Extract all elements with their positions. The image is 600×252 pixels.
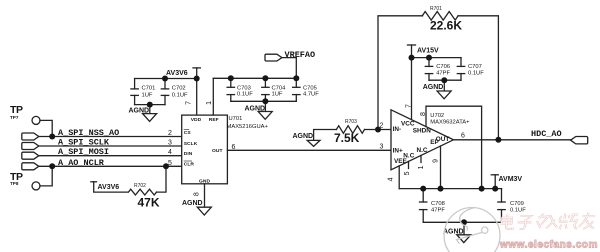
svg-text:HDC_AO: HDC_AO	[531, 129, 562, 139]
watermark chinese characters	[501, 213, 596, 230]
capacitor C702	[161, 79, 168, 105]
node AGND on C701 rail	[147, 102, 153, 108]
char you	[578, 213, 595, 229]
op-amp U702 triangle	[391, 110, 454, 170]
wire C708 C709 ground rail	[423, 221, 501, 223]
char dian	[501, 215, 514, 230]
svg-text:AVM3V: AVM3V	[499, 176, 523, 183]
svg-text:C706: C706	[436, 64, 450, 70]
svg-text:C709: C709	[510, 201, 524, 207]
ground AGND below C706/C707	[437, 80, 451, 99]
connector arrow A_SPI_NSS_AO	[22, 133, 39, 140]
svg-text:4.7UF: 4.7UF	[303, 92, 319, 98]
svg-text:IN+: IN+	[393, 148, 403, 155]
capacitor C705	[293, 78, 300, 101]
svg-text:AV3V6: AV3V6	[166, 70, 188, 77]
capacitor C709	[498, 189, 505, 223]
wire U701 OUT to opamp IN+	[227, 149, 391, 151]
node AGND on C706 rail	[441, 77, 447, 83]
svg-text:IN-: IN-	[393, 126, 402, 133]
ground AGND below C703-C705	[258, 101, 272, 119]
svg-text:3: 3	[168, 140, 172, 147]
svg-text:1: 1	[206, 101, 213, 105]
wire A_SPI_SCLK	[39, 145, 182, 147]
wire NC pin5 stub	[408, 161, 410, 168]
svg-text:5: 5	[404, 171, 411, 175]
wire VCC pin7 stub	[411, 58, 413, 120]
svg-text:R701: R701	[430, 6, 442, 12]
svg-text:VREFAO: VREFAO	[285, 50, 316, 60]
svg-text:C705: C705	[303, 85, 317, 91]
power symbol AV3V6 (U701 VDD rail)	[193, 67, 200, 69]
resistor R701 22.6K	[422, 12, 458, 21]
connector arrow A_SPI_MOSI	[22, 152, 39, 159]
svg-text:www.elecfans.com: www.elecfans.com	[499, 240, 598, 251]
svg-text:AGND: AGND	[182, 200, 203, 207]
connector arrow VREFAO	[265, 54, 282, 61]
svg-text:R703: R703	[345, 119, 357, 125]
wire AV15V rail	[412, 57, 462, 59]
ground AGND below C701/C702	[143, 105, 157, 122]
char dian	[501, 215, 514, 230]
ground AGND below U701	[197, 207, 211, 215]
svg-text:R702: R702	[134, 183, 146, 189]
char zi	[517, 216, 532, 229]
char shao	[558, 214, 579, 230]
node C705/VREFAO on REF rail	[293, 75, 299, 81]
wire REF rail	[213, 77, 296, 79]
wire A_SPI_NSS_AO	[39, 136, 182, 138]
svg-text:AGND: AGND	[293, 133, 314, 140]
resistor R702 47K	[128, 189, 156, 195]
svg-text:AGND: AGND	[129, 108, 150, 115]
svg-text:C707: C707	[468, 64, 482, 70]
node AGND on C703 rail	[262, 98, 268, 104]
svg-text:22.6K: 22.6K	[430, 19, 462, 33]
svg-text:AGND: AGND	[443, 229, 464, 236]
svg-text:A_SPI_MOSI: A_SPI_MOSI	[58, 147, 109, 157]
power symbol AV15V	[408, 44, 416, 46]
ground AGND below C708/C709	[457, 222, 471, 242]
connector arrow A_SPI_SCLK	[22, 143, 39, 150]
svg-text:0.1UF: 0.1UF	[510, 208, 526, 214]
svg-text:5: 5	[168, 160, 172, 167]
node C702 on AV3V6 rail	[162, 76, 168, 82]
watermark logo circle (grey)	[444, 208, 500, 252]
wire AVM3V rail	[399, 188, 501, 190]
svg-text:0.1UF: 0.1UF	[468, 71, 484, 77]
wire VEE pin4 drop	[398, 166, 400, 189]
svg-text:1: 1	[418, 165, 425, 169]
svg-text:OUT: OUT	[436, 136, 450, 143]
svg-text:2: 2	[380, 123, 384, 130]
svg-text:47PF: 47PF	[436, 71, 450, 77]
wire C703-C705 ground rail	[231, 100, 296, 102]
svg-text:4: 4	[388, 177, 395, 181]
wire REF pin1 drop	[212, 78, 214, 115]
wire U701 GND stub	[204, 184, 206, 207]
wire NC pin1 stub	[420, 155, 422, 162]
svg-text:REF: REF	[209, 117, 219, 123]
IC U701 MAX5216GUA+	[182, 115, 228, 184]
wire A_SPI_MOSI	[39, 155, 182, 157]
svg-text:AGND: AGND	[245, 106, 266, 113]
wire C701 C702 ground rail	[135, 104, 165, 106]
wire A_AO_NCLR	[39, 165, 182, 167]
svg-text:CLR: CLR	[184, 162, 195, 168]
power symbol AV3V6 (R702 pullup)	[91, 181, 97, 183]
svg-text:47K: 47K	[138, 196, 160, 210]
char zi	[517, 216, 532, 229]
svg-text:3: 3	[380, 143, 384, 150]
node C706 on AV15V rail	[426, 55, 432, 61]
wire feedback loop (R701)	[378, 16, 423, 130]
wire VDD pin7 drop	[196, 68, 198, 115]
node C708 on AVM3V rail	[420, 186, 426, 192]
wire C706 C707 ground rail	[429, 79, 461, 81]
connector arrow HDC_AO	[571, 137, 588, 144]
node pin7 on AV3V6 rail	[194, 76, 200, 82]
svg-text:2: 2	[168, 130, 172, 137]
svg-text:U702: U702	[430, 113, 444, 119]
svg-text:8: 8	[194, 192, 201, 196]
node R702/NCLR junction	[163, 163, 169, 169]
node C704 on REF rail	[262, 75, 268, 81]
svg-text:8: 8	[420, 112, 427, 116]
char shao	[558, 214, 579, 230]
ground AGND at R703	[307, 130, 336, 147]
wire AV3V6 rail	[135, 78, 197, 80]
svg-text:DIN: DIN	[184, 151, 193, 157]
wire VREFAO to REF rail	[282, 58, 297, 79]
node C703 on REF rail	[228, 75, 234, 81]
capacitor C703	[227, 78, 234, 101]
svg-text:0.1UF: 0.1UF	[237, 92, 253, 98]
char fa	[536, 214, 559, 229]
svg-text:7: 7	[186, 101, 193, 105]
node TP8/NCLR junction	[49, 163, 55, 169]
svg-text:4: 4	[168, 149, 172, 156]
svg-text:OUT: OUT	[212, 148, 223, 154]
svg-text:A_AO_NCLR: A_AO_NCLR	[58, 158, 105, 168]
svg-text:C704: C704	[272, 85, 287, 91]
node output/feedback junction	[495, 137, 501, 143]
capacitor C706	[425, 58, 432, 81]
svg-text:SHDN: SHDN	[413, 127, 431, 134]
wire TP7 to A_SPI_NSS_AO	[40, 120, 52, 136]
svg-text:GND: GND	[199, 178, 211, 184]
svg-text:AV15V: AV15V	[417, 48, 439, 55]
svg-text:MAX9632ATA+: MAX9632ATA+	[430, 120, 470, 126]
svg-text:N.C: N.C	[417, 147, 428, 154]
test point TP7	[32, 116, 40, 124]
svg-text:U701: U701	[229, 116, 243, 122]
char fa	[536, 214, 559, 229]
node TP7/NSS junction	[49, 134, 55, 140]
node IN- junction	[375, 127, 381, 133]
svg-text:47PF: 47PF	[431, 208, 445, 214]
svg-text:1UF: 1UF	[272, 92, 283, 98]
svg-text:C702: C702	[172, 86, 186, 92]
svg-text:0.1UF: 0.1UF	[172, 93, 188, 99]
svg-text:C701: C701	[142, 86, 156, 92]
wire opamp output	[454, 139, 571, 141]
svg-text:TP8: TP8	[10, 181, 19, 186]
svg-text:1UF: 1UF	[142, 93, 153, 99]
wire R703 to IN- node	[365, 129, 392, 131]
connector arrow A_AO_NCLR	[22, 163, 39, 170]
svg-text:6: 6	[461, 133, 465, 140]
svg-text:TP7: TP7	[10, 115, 19, 120]
svg-text:7: 7	[405, 104, 412, 108]
svg-text:AV3V6: AV3V6	[98, 184, 120, 191]
svg-text:MAX5216GUA+: MAX5216GUA+	[227, 124, 269, 130]
svg-text:9: 9	[432, 159, 439, 163]
test point TP8	[32, 182, 40, 190]
svg-text:SCLK: SCLK	[184, 141, 198, 147]
capacitor C708	[420, 189, 427, 223]
wire R702 to A_AO_NCLR	[157, 166, 167, 192]
wire EP pin9 drop	[440, 146, 442, 189]
svg-text:CS: CS	[184, 130, 192, 136]
svg-text:C703: C703	[237, 85, 251, 91]
node AV15V/VCC junction	[409, 55, 415, 61]
char you	[578, 213, 595, 229]
svg-text:7.5K: 7.5K	[334, 131, 360, 145]
node AGND on C708 rail	[461, 219, 467, 225]
capacitor C707	[457, 58, 464, 81]
node SHDN loop on AVM3V rail	[479, 186, 485, 192]
svg-text:A_SPI_SCLK: A_SPI_SCLK	[58, 138, 110, 148]
svg-text:N.C: N.C	[403, 153, 414, 160]
node EP on AVM3V rail	[438, 186, 444, 192]
wire SHDN pin8 loop to AVM3V rail	[426, 106, 482, 188]
svg-text:C708: C708	[431, 201, 445, 207]
capacitor C701	[131, 79, 138, 105]
node AVM3V stem on rail	[492, 186, 498, 192]
power symbol AVM3V	[491, 174, 498, 176]
svg-text:6: 6	[232, 144, 236, 151]
svg-text:VDD: VDD	[191, 117, 202, 123]
wire TP8 to A_AO_NCLR	[40, 166, 52, 186]
capacitor C704	[262, 78, 269, 101]
svg-text:AGND: AGND	[423, 84, 444, 91]
wire R701 right to output node	[458, 16, 498, 140]
svg-text:A_SPI_NSS_AO: A_SPI_NSS_AO	[58, 128, 119, 138]
resistor R703 7.5K	[336, 126, 364, 134]
